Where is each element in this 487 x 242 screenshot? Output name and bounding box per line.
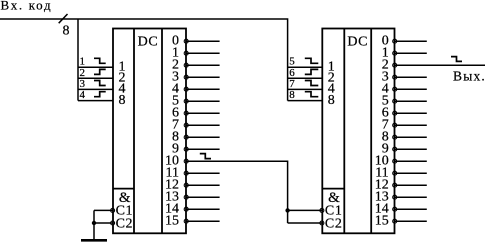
svg-text:C2: C2: [116, 216, 134, 231]
svg-text:DC: DC: [347, 34, 368, 49]
svg-text:15: 15: [165, 214, 179, 229]
svg-text:C2: C2: [325, 216, 343, 231]
svg-text:8: 8: [289, 89, 295, 101]
svg-text:8: 8: [328, 93, 335, 108]
svg-text:8: 8: [63, 23, 70, 38]
svg-text:4: 4: [80, 89, 86, 101]
svg-text:2: 2: [382, 58, 389, 73]
svg-text:Вых.: Вых.: [453, 68, 486, 83]
svg-text:Вх. код: Вх. код: [1, 0, 53, 12]
svg-text:15: 15: [375, 214, 389, 229]
svg-text:10: 10: [165, 154, 179, 169]
svg-text:3: 3: [80, 78, 86, 90]
svg-text:8: 8: [119, 93, 126, 108]
svg-text:7: 7: [289, 78, 295, 90]
svg-text:DC: DC: [138, 34, 159, 49]
